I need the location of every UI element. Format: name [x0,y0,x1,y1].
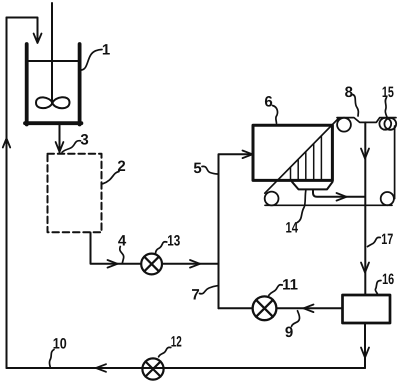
belt top line with suction dip [337,118,396,123]
stirrer impeller [36,97,70,108]
hatch lines in filter [291,136,322,179]
wire: tank outlet 3 [59,125,61,153]
arrow down from box 16 [361,348,369,358]
svg-text:7: 7 [191,287,199,304]
leader for label 9 [292,311,300,327]
pump 13 [141,254,162,275]
leader for label 2 [103,172,119,184]
wire: feed line / stirrer shaft [51,3,53,103]
svg-text:6: 6 [264,93,272,110]
arrow on wire 4 [108,260,118,268]
leader for label 7 [200,286,218,294]
svg-text:9: 9 [285,324,293,341]
hopper 14 [292,182,333,190]
svg-text:3: 3 [80,132,88,149]
wire: hopper outlet [313,190,365,197]
filter box 6 [253,125,332,180]
wire 10: bottom return [7,367,366,369]
liquid level line [28,60,77,62]
leader for label 12 [159,347,171,356]
leader for label 10 [49,350,54,368]
svg-text:15: 15 [382,84,394,101]
wire 5/7: junction riser [219,154,253,308]
arrow on bottom wire (pointing left) [96,364,106,372]
arrow on wire 17 lower [361,263,369,273]
arrow after pump 13 [190,260,200,268]
svg-text:8: 8 [345,84,353,101]
roller bottom-right [381,192,394,205]
svg-text:4: 4 [118,232,127,249]
leader for label 8 [353,95,359,117]
wire 4: box 2 outlet [91,233,142,264]
leader for label 13 [156,242,167,253]
belt bottom line [265,204,392,206]
svg-text:5: 5 [193,160,201,177]
pump 12 [142,358,163,379]
leader for label 4 [120,247,124,264]
leader for label 14 [297,191,306,223]
leader for label 5 [202,166,217,174]
leader for label 3 [62,141,81,153]
tank 1 [25,44,81,125]
arrow into box 2 [56,142,64,152]
svg-text:17: 17 [381,231,393,248]
svg-text:13: 13 [167,232,180,249]
leader for label 1 [82,50,103,71]
leader for label 11 [269,285,283,296]
arrow 9 (pointing left) [304,305,314,313]
wire: box 16 outlet down [364,323,366,368]
svg-text:14: 14 [286,219,299,236]
svg-text:10: 10 [53,336,67,353]
svg-text:12: 12 [171,334,182,351]
roller bottom-left [265,192,279,206]
svg-text:11: 11 [282,277,298,294]
belt right edge [394,126,396,199]
arrow 5 into filter box 6 [243,151,253,159]
svg-text:1: 1 [102,42,110,59]
roller 8 [337,118,351,132]
rollers 15 [379,118,391,130]
svg-text:2: 2 [117,158,125,175]
leader for label 15 [385,98,387,118]
wire: recycle inlet (top) [7,18,38,42]
leader for label 17 [368,237,381,246]
leader for label 6 [273,106,278,124]
pump 11 [253,296,277,320]
wire: box 16 to pump 11 [277,307,343,309]
arrow on wire 17 upper [361,149,369,159]
belt diagonal [265,118,339,193]
arrow on hopper outlet [337,193,347,201]
wire 17 [364,122,366,294]
wire: pump 11 to junction [219,307,253,309]
wire: recycle riser (left) [6,18,8,369]
leader for label 16 [375,281,381,294]
box 16 [343,295,391,323]
dashed box 2 [48,154,102,233]
arrow up on recycle riser [3,138,10,147]
arrow into tank [34,34,42,44]
wire: pump 13 to junction [162,263,219,265]
svg-text:16: 16 [382,271,394,288]
